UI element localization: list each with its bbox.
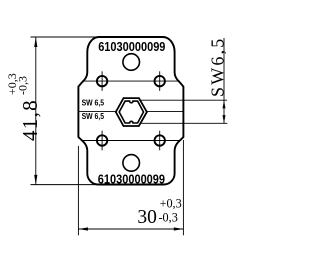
svg-text:+0,3: +0,3 (160, 197, 182, 211)
svg-text:61030000099: 61030000099 (98, 171, 165, 186)
svg-text:SW6,5: SW6,5 (208, 37, 228, 98)
svg-text:SW 6,5: SW 6,5 (82, 98, 105, 108)
svg-text:30: 30 (137, 207, 157, 228)
svg-text:41,8: 41,8 (18, 99, 42, 141)
svg-text:61030000099: 61030000099 (98, 39, 165, 54)
svg-text:SW 6,5: SW 6,5 (82, 111, 105, 121)
svg-text:-0,3: -0,3 (159, 211, 178, 225)
svg-text:-0,3: -0,3 (16, 76, 30, 95)
